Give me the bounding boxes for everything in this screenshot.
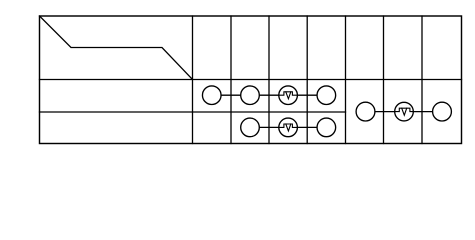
column line x=422 xyxy=(421,16,423,144)
voltmeter PV2 terminals and V mark xyxy=(279,124,298,127)
lamp HL3 xyxy=(317,86,336,105)
voltmeter PV1 body xyxy=(279,86,298,105)
voltmeter PV3 terminals and V mark xyxy=(395,108,414,111)
wire row 1 xyxy=(212,94,327,96)
row line y=79.5 xyxy=(40,79,462,81)
lamp HL1 xyxy=(202,86,221,105)
lamp HL7 xyxy=(433,102,452,121)
frame outer border xyxy=(40,16,462,144)
zigzag polyline (break symbol) xyxy=(40,16,193,80)
lamp HL6 xyxy=(356,102,375,121)
column line x=269 xyxy=(268,16,270,144)
column line x=383.5 xyxy=(383,16,385,144)
lamp HL5 xyxy=(317,118,336,137)
lamp HL4 xyxy=(241,118,260,137)
column line x=231 xyxy=(230,16,232,144)
voltmeter PV2 body xyxy=(279,118,298,137)
column line x=192.5 xyxy=(192,16,194,144)
row line y=112 (left part only) xyxy=(40,111,346,113)
voltmeter PV1 terminals and V mark xyxy=(279,92,298,95)
lamp HL2 xyxy=(241,86,260,105)
wire right group xyxy=(366,111,443,113)
voltmeter PV3 body xyxy=(395,102,414,121)
column line x=307.2 xyxy=(306,16,308,144)
column line x=345.5 xyxy=(345,16,347,144)
wire row 2 xyxy=(250,126,326,128)
